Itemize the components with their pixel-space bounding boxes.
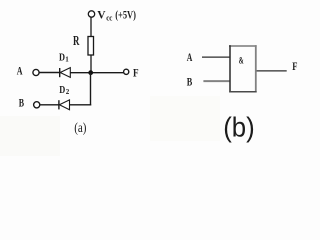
- terminal Vcc: [88, 11, 94, 17]
- svg-text:(+5V): (+5V): [115, 10, 136, 22]
- svg-text:&: &: [239, 56, 244, 66]
- svg-text:D: D: [59, 51, 65, 63]
- svg-text:A: A: [187, 52, 193, 64]
- wire B to gate: [203, 80, 230, 82]
- svg-text:(a): (a): [74, 120, 86, 135]
- terminal B: [34, 102, 40, 108]
- AND gate box U1: [229, 45, 257, 92]
- svg-text:A: A: [17, 65, 23, 77]
- svg-text:D: D: [59, 84, 65, 96]
- svg-text:F: F: [292, 61, 297, 73]
- svg-text:R: R: [73, 33, 80, 48]
- diode D2: [59, 100, 70, 110]
- wire gate output to F: [257, 70, 287, 72]
- svg-text:V: V: [97, 10, 106, 22]
- wire resistor to node: [90, 55, 92, 73]
- terminal F: [124, 69, 129, 74]
- diode D1: [60, 68, 71, 78]
- svg-text:1: 1: [65, 55, 69, 63]
- svg-text:2: 2: [66, 88, 70, 96]
- terminal A: [33, 69, 39, 75]
- resistor R: [88, 37, 94, 56]
- wire corner up to node: [90, 73, 92, 106]
- svg-text:B: B: [19, 97, 25, 109]
- wire Vcc to resistor: [90, 17, 92, 36]
- svg-text:(b): (b): [223, 111, 255, 142]
- wire D2 to corner: [70, 104, 92, 106]
- wire D1 to node to F: [70, 72, 123, 74]
- svg-text:F: F: [133, 66, 139, 80]
- svg-text:B: B: [187, 77, 193, 89]
- junction node dot: [88, 70, 93, 75]
- svg-text:cc: cc: [106, 13, 113, 22]
- wire B to D2: [40, 104, 58, 106]
- wire A to gate: [202, 56, 230, 58]
- wire A to D1: [39, 72, 59, 74]
